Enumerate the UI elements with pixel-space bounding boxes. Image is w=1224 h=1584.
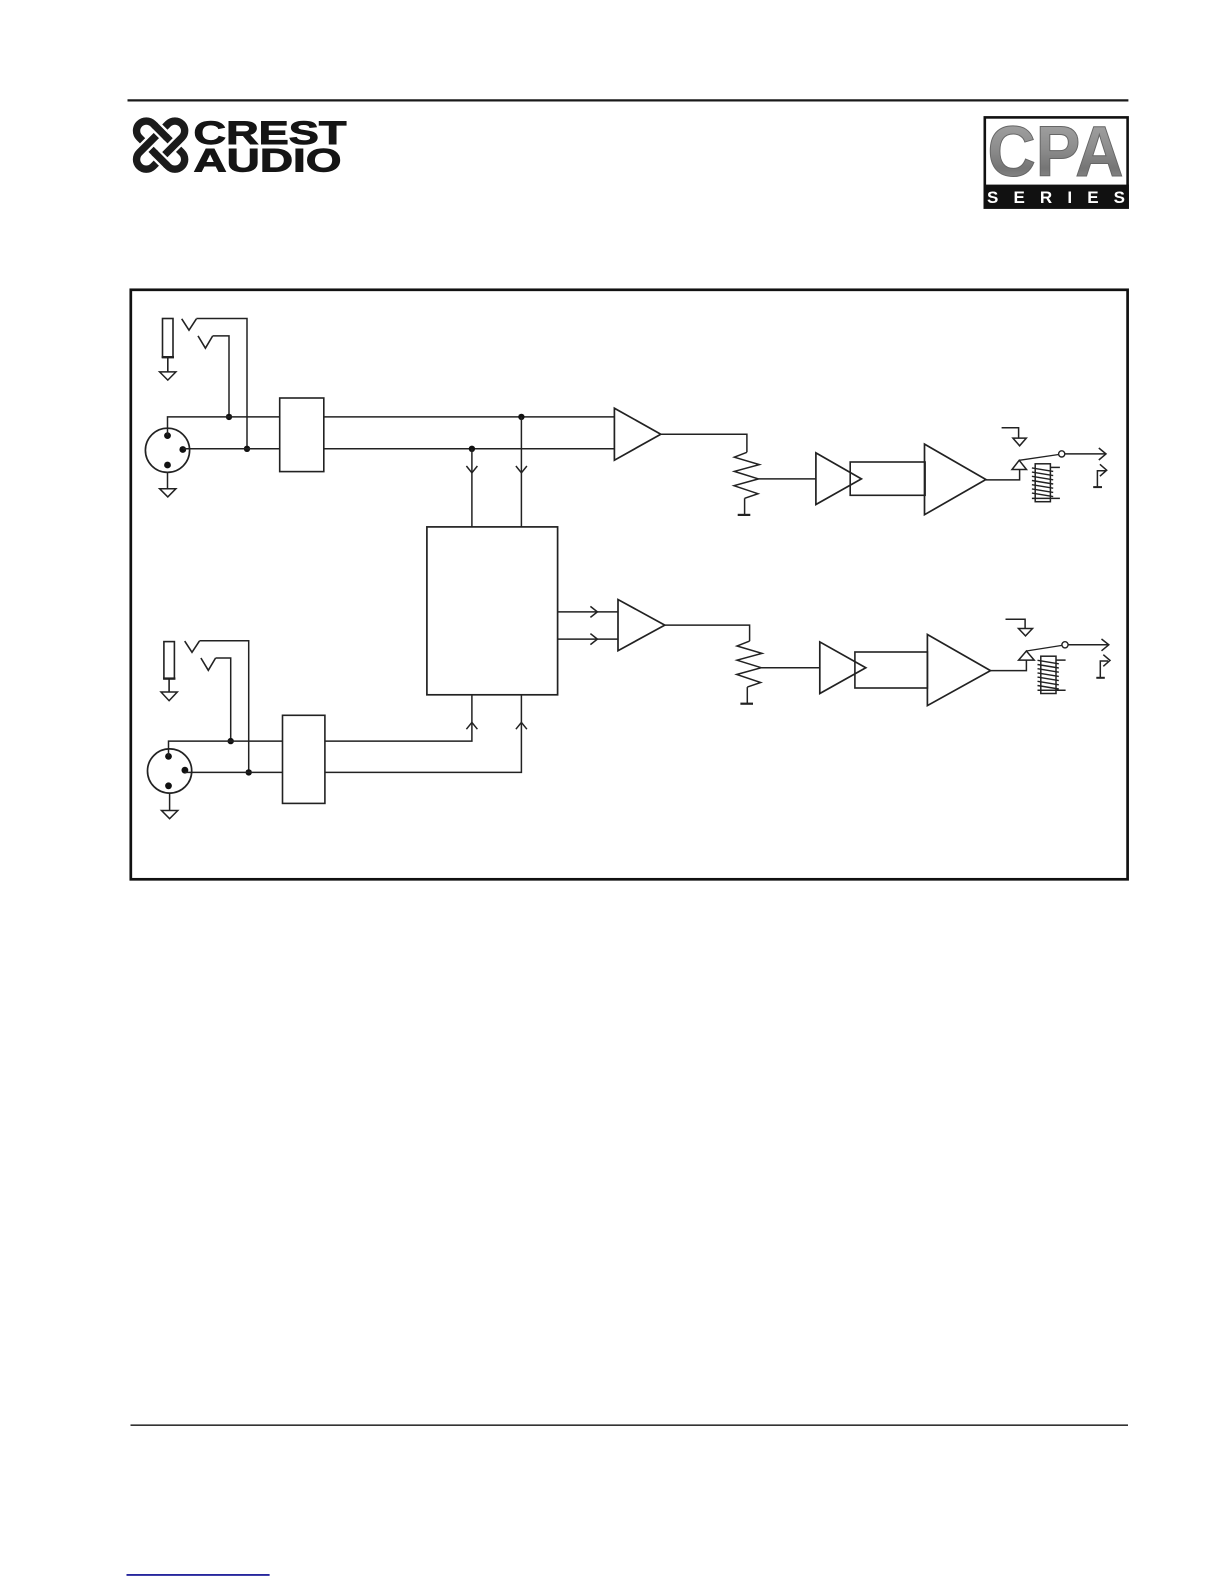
junction on lower wire ch1 — [244, 446, 250, 452]
wire power amp ch1 to relay — [986, 470, 1020, 480]
output jack ch1 — [1093, 464, 1107, 487]
bottom horizontal rule — [131, 1424, 1129, 1426]
ground at jack J1 — [160, 372, 176, 380]
jack J1 ring contact — [198, 336, 213, 348]
Crest Audio logo knot — [132, 117, 188, 173]
jack J1 sleeve contact — [162, 319, 174, 372]
XLR connector X1 — [145, 428, 189, 472]
wire U1 out to level pot R1 — [661, 434, 747, 452]
ground at XLR X1 — [160, 472, 176, 497]
op-amp U4 ch2 driver — [820, 642, 866, 694]
wire R1 to ground — [744, 498, 746, 514]
wire J1 tip to lower input wire — [196, 319, 247, 449]
output stage block ch1 — [850, 462, 925, 495]
relay K2 coil — [1038, 656, 1066, 693]
svg-text:CPA: CPA — [988, 113, 1124, 192]
transformer T1 — [280, 398, 324, 472]
wire U3 out to level pot R2 — [665, 625, 750, 641]
jack J2 ring contact — [201, 658, 216, 670]
wire J2 tip to lower input wire — [199, 641, 248, 773]
relay K1 fixed contact — [1059, 451, 1065, 457]
wire R2 wiper to amp U4 — [761, 667, 820, 669]
wire J2 ring to upper input wire — [216, 658, 231, 741]
ground at XLR X2 — [162, 793, 178, 819]
CPA Series logo — [984, 113, 1129, 209]
level pot R2 — [737, 641, 762, 687]
ground bar R2 — [740, 703, 753, 705]
svg-text:AUDIO: AUDIO — [194, 143, 342, 179]
wire T2 upper out to block bottom left pin — [325, 695, 478, 741]
wire X2 pin2 to transformer T2 — [169, 741, 283, 756]
wire T1 upper out to amp U1 — [324, 416, 615, 418]
meter/crossover block — [427, 527, 558, 695]
op-amp U2 ch1 driver — [816, 453, 862, 505]
wire T1 lower out to amp U1 — [324, 448, 615, 450]
wire junction to block top right pin — [516, 417, 527, 527]
relay K2 armature contact — [1019, 645, 1062, 660]
wire junction to block top left pin — [466, 449, 477, 527]
jack J2 tip contact — [185, 641, 200, 652]
wire relay K2 to output — [1068, 639, 1109, 651]
output jack ch2 — [1096, 655, 1110, 678]
wire X2 pin3 to transformer T2 — [185, 771, 283, 773]
Crest Audio logo word CREST — [194, 115, 347, 151]
op-amp U1 ch1 input amp — [614, 408, 660, 460]
relay K2 fixed contact — [1062, 642, 1068, 648]
transformer T2 — [283, 715, 325, 803]
schematic frame — [131, 290, 1128, 880]
power amp ch2 — [927, 635, 990, 706]
relay K1 coil — [1032, 464, 1060, 502]
wire power amp ch2 to relay — [991, 660, 1027, 671]
op-amp U3 ch2 input amp — [618, 600, 665, 651]
ground bar R1 — [738, 514, 751, 516]
junction lower wire to meter — [469, 446, 475, 452]
jack J1 tip contact — [182, 319, 197, 330]
Crest Audio logo word AUDIO — [194, 143, 342, 179]
junction upper wire to meter — [518, 414, 524, 420]
ground lift above relay K1 — [1002, 428, 1027, 446]
wire X1 pin2 to transformer T1 — [168, 417, 280, 436]
wire J1 ring to upper input wire — [213, 336, 229, 417]
wire R2 to ground — [746, 687, 748, 703]
junction on upper wire ch1 — [226, 414, 232, 420]
block right output wire upper — [558, 606, 618, 617]
footer link underline — [127, 1574, 270, 1576]
wire R1 wiper to amp U2 — [759, 478, 816, 480]
relay K1 armature contact — [1012, 455, 1059, 470]
level pot R1 — [734, 452, 759, 498]
output stage block ch2 — [855, 652, 928, 688]
XLR connector X2 — [148, 749, 192, 793]
block right output wire lower — [558, 634, 618, 645]
junction on upper wire ch2 — [228, 738, 234, 744]
ground lift above relay K2 — [1006, 619, 1033, 636]
wire relay K1 to output — [1065, 448, 1106, 460]
ground at jack J2 — [161, 692, 177, 701]
power amp ch1 — [925, 444, 986, 515]
wire T2 lower out to block bottom right pin — [325, 695, 527, 773]
top horizontal rule — [128, 99, 1129, 101]
junction on lower wire ch2 — [246, 769, 252, 775]
jack J2 sleeve contact — [163, 642, 175, 692]
wire X1 pin3 to transformer T1 — [183, 448, 280, 450]
